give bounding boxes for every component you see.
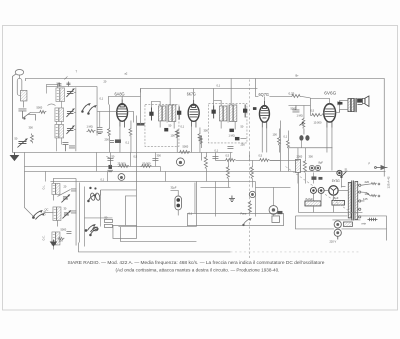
phono motor connector <box>334 221 341 240</box>
resistor tone <box>248 200 251 213</box>
svg-text:300: 300 <box>58 238 63 242</box>
circle component left mid <box>118 174 125 181</box>
electrolytic circles right <box>309 165 320 170</box>
IFT1 windings <box>158 104 175 122</box>
svg-text:Fono: Fono <box>240 211 246 215</box>
svg-text:O.L.: O.L. <box>42 185 45 190</box>
svg-text:OC: OC <box>44 207 48 211</box>
svg-text:0,5: 0,5 <box>225 153 229 157</box>
svg-text:20: 20 <box>103 79 106 83</box>
wire right mid bus <box>288 105 332 183</box>
volume pot resistor a <box>224 158 235 161</box>
dark box under 6A8G <box>115 139 121 143</box>
svg-text:a2: a2 <box>124 71 127 75</box>
svg-text:10.000: 10.000 <box>313 120 321 124</box>
center mid extra wires <box>24 152 298 226</box>
svg-text:250: 250 <box>240 142 245 146</box>
resistor under 6K7G b <box>198 132 201 141</box>
svg-text:5000: 5000 <box>182 144 188 148</box>
variable cap gang 3 <box>66 125 74 134</box>
wire osc area <box>24 171 79 249</box>
svg-text:50: 50 <box>111 154 114 158</box>
band switch arrows <box>33 210 45 219</box>
wire box link <box>100 115 136 226</box>
svg-text:32µF: 32µF <box>170 185 176 189</box>
svg-text:30: 30 <box>63 206 66 210</box>
svg-text:8µF: 8µF <box>318 160 323 164</box>
wire 6A8G grid <box>97 111 117 127</box>
wire IFT2 <box>214 78 236 129</box>
svg-text:0,5: 0,5 <box>258 153 262 157</box>
svg-text:SIARE RADIO. — Mod. 422 A. — M: SIARE RADIO. — Mod. 422 A. — Media frequ… <box>67 260 325 265</box>
double diode cap <box>175 196 182 210</box>
svg-text:100: 100 <box>272 132 277 136</box>
svg-text:300: 300 <box>28 125 33 129</box>
cap block left mid <box>106 156 113 171</box>
svg-text:125: 125 <box>363 197 368 201</box>
wire double diode <box>170 181 196 226</box>
cap 6Q7G plate line <box>288 104 310 106</box>
ground osc <box>50 237 64 246</box>
svg-text:6K7G: 6K7G <box>187 91 197 96</box>
electrolytic dots mid <box>299 135 309 141</box>
coil labels <box>42 185 46 241</box>
wire long mid bus 171 <box>24 170 385 172</box>
resistor mid column b <box>277 136 280 145</box>
tone box part a <box>243 218 252 225</box>
variable cap gang 2 <box>66 108 74 117</box>
small resistors above box <box>104 219 112 227</box>
resistor IFT1 bottom <box>175 129 178 138</box>
resistor R antenna <box>30 133 33 143</box>
wire bottom 250 <box>78 242 230 252</box>
ground main left <box>10 152 18 160</box>
svg-text:50: 50 <box>240 124 243 128</box>
phono input right <box>375 165 388 169</box>
osc coil B <box>53 207 61 221</box>
wire top B+ bus <box>25 78 384 176</box>
svg-text:25.000: 25.000 <box>117 161 125 165</box>
trimmer antenna <box>17 138 27 147</box>
svg-text:8+8µF: 8+8µF <box>305 197 313 201</box>
wire 6K7G top <box>193 88 195 100</box>
transformer taps <box>358 184 361 218</box>
svg-text:50: 50 <box>168 123 171 127</box>
speck labels top <box>75 69 299 87</box>
tuning coil bank <box>55 88 65 138</box>
wire second vertical <box>194 182 196 213</box>
svg-text:6Q7G: 6Q7G <box>258 92 269 97</box>
svg-text:300: 300 <box>203 128 208 132</box>
svg-text:0,25: 0,25 <box>288 91 294 95</box>
IF transformer 2 box <box>208 103 247 143</box>
grid cap 6Q7G <box>253 107 257 110</box>
choke filter <box>295 159 300 172</box>
svg-text:100: 100 <box>170 133 175 137</box>
ground mid <box>229 195 235 201</box>
svg-text:5000: 5000 <box>290 106 296 110</box>
lamp top <box>337 170 342 175</box>
tone box part b <box>272 216 280 223</box>
caps pair bottom left <box>62 142 74 151</box>
tube 6A8G <box>117 99 128 127</box>
circle component mid <box>176 158 184 166</box>
wire ground bus <box>12 151 232 153</box>
svg-text:220 V: 220 V <box>329 239 336 243</box>
speaker <box>357 96 369 107</box>
svg-text:1 MΩ: 1 MΩ <box>296 113 302 117</box>
svg-text:50.000: 50.000 <box>142 161 150 165</box>
svg-text:300: 300 <box>156 153 161 157</box>
resistor 3M plate <box>290 94 301 97</box>
power transformer <box>348 180 358 220</box>
osc trimmer a <box>61 194 69 202</box>
resistor under 6A8G b <box>129 127 132 136</box>
wire avc <box>201 135 246 148</box>
rectifier 5Y3G <box>329 186 338 195</box>
svg-text:50: 50 <box>104 215 107 219</box>
svg-text:O.C.: O.C. <box>42 235 45 240</box>
IFT2 trimmers <box>212 104 247 118</box>
vertical resistor det b <box>226 165 229 178</box>
IFT2 windings <box>219 104 236 122</box>
tube 6K7G <box>188 100 199 128</box>
switch mains top <box>341 171 347 177</box>
cap IFT1 bottom <box>164 128 168 132</box>
cap 6A8G cathode <box>110 140 114 142</box>
wire second top bus <box>140 88 257 92</box>
resistor on bus 152 <box>178 150 190 153</box>
wire bottom bus 226 <box>118 225 196 227</box>
switch wafer osc ovals <box>90 187 101 201</box>
svg-text:220: 220 <box>364 180 369 184</box>
wire pots <box>201 120 280 171</box>
svg-text:5000: 5000 <box>36 105 42 109</box>
circle jack small <box>249 191 255 197</box>
svg-text:200: 200 <box>104 137 109 141</box>
wire OT <box>339 100 348 112</box>
wire 6Q7G <box>253 78 291 152</box>
svg-text:0,1: 0,1 <box>283 134 287 138</box>
resistor filter <box>303 159 306 172</box>
svg-text:S1: S1 <box>344 167 348 171</box>
osc trimmer b <box>62 210 70 218</box>
capacitor antenna <box>18 109 26 119</box>
wire psu <box>298 170 362 220</box>
resistor left arm <box>38 110 46 113</box>
electrolytic block right <box>332 196 345 205</box>
wire bus 181 <box>50 180 255 182</box>
wire det resistors <box>200 152 290 216</box>
wire 6A8G bottom <box>109 104 131 152</box>
antenna <box>12 69 23 152</box>
svg-text:1 MΩ: 1 MΩ <box>228 133 234 137</box>
svg-text:50: 50 <box>14 136 17 140</box>
node switch antenna <box>22 112 35 120</box>
switch wafer RF <box>82 103 97 114</box>
wire coil links <box>46 84 61 151</box>
variable cap gang 1 <box>66 88 74 97</box>
svg-text:2000: 2000 <box>296 154 302 158</box>
fuse block hatched <box>343 222 352 227</box>
resistor mid column a <box>199 135 202 144</box>
IFT1 trimmers <box>150 106 181 120</box>
wire 6K7G bottom <box>191 126 200 152</box>
svg-text:0,1: 0,1 <box>188 211 192 215</box>
svg-text:6V6G: 6V6G <box>324 90 337 95</box>
caps osc area <box>66 189 76 234</box>
wire 6V6G <box>310 98 339 171</box>
svg-text:125 A-42: 125 A-42 <box>386 176 390 188</box>
cap 6V6G plate <box>337 101 342 105</box>
wire motor <box>120 216 386 252</box>
dark knob tone box <box>277 211 282 214</box>
cap bar under osc link <box>137 123 145 126</box>
output transformer <box>348 98 356 112</box>
svg-text:0,1: 0,1 <box>100 177 104 181</box>
left mid small parts: resistor under bus <box>118 158 225 167</box>
svg-text:300: 300 <box>308 154 313 158</box>
resistor 6V6G grid <box>310 113 321 116</box>
resistor 1M <box>86 129 95 132</box>
tone box <box>187 213 283 225</box>
wire mid bus 166 <box>24 165 160 167</box>
resistor under 6K7G a <box>176 129 179 138</box>
svg-text:0,5: 0,5 <box>310 108 314 112</box>
svg-text:0,1: 0,1 <box>125 140 129 144</box>
vertical resistor det a <box>204 155 207 168</box>
svg-text:T: T <box>75 69 77 73</box>
coil label streaks <box>53 90 59 243</box>
circle phono jack <box>269 206 278 215</box>
IF transformer 1 box <box>145 104 179 146</box>
empty box bottom left <box>113 225 137 238</box>
vertical resistor det c <box>250 165 253 178</box>
tube 6Q7G <box>259 101 269 129</box>
tube 6V6G <box>324 104 336 128</box>
cap IFT2 diode a <box>229 129 234 132</box>
svg-text:0,1: 0,1 <box>180 124 184 128</box>
wire bus 190 <box>100 189 136 191</box>
svg-text:160: 160 <box>364 192 369 196</box>
svg-text:1 MΩ: 1 MΩ <box>86 124 92 128</box>
cap grid ground <box>96 127 103 133</box>
caps mid band <box>107 146 233 160</box>
svg-text:(Ad onda cortissima, attacca m: (Ad onda cortissima, attacca mantes a de… <box>115 267 279 272</box>
pilot lamps <box>310 187 324 193</box>
svg-text:0,5: 0,5 <box>133 154 137 158</box>
diagonal dashed link <box>285 166 352 213</box>
osc coil C <box>52 232 60 245</box>
pot volume with arrow <box>299 117 304 134</box>
wire wafer feed <box>84 186 112 246</box>
wire 6A8G top cap <box>108 96 122 104</box>
svg-text:0,1: 0,1 <box>216 83 220 87</box>
svg-text:0,1: 0,1 <box>214 148 218 152</box>
cap 5000 <box>292 105 299 112</box>
svg-text:20: 20 <box>63 184 66 188</box>
switch wafer osc lower cluster <box>85 224 98 232</box>
svg-text:0,1: 0,1 <box>99 96 103 100</box>
dark parts above lamps <box>311 176 322 179</box>
trimmers on box top <box>57 76 70 86</box>
resistor under 6A8G a <box>107 127 110 136</box>
fuse bottom right <box>367 218 377 221</box>
left bottom switch wafer 2 <box>88 194 99 235</box>
cap IFT2 diode b <box>235 137 240 140</box>
svg-text:5Y3G: 5Y3G <box>332 178 340 183</box>
svg-text:6A8G: 6A8G <box>114 91 125 96</box>
value labels <box>14 81 370 243</box>
mains taps right <box>361 183 380 201</box>
wire IFT1 <box>122 88 174 128</box>
osc coil A <box>52 183 60 194</box>
wire mid columns <box>279 128 288 171</box>
electrolytic block left <box>305 197 321 206</box>
svg-text:B+: B+ <box>295 73 299 77</box>
antenna coil form <box>17 75 27 108</box>
dashed shaft link vertical <box>248 79 250 258</box>
volume pot resistor b <box>258 158 269 161</box>
svg-text:rete: rete <box>361 221 366 225</box>
svg-text:F: F <box>368 161 370 165</box>
svg-text:5000: 5000 <box>60 227 66 231</box>
resistor mid column c <box>286 139 289 148</box>
wire gang bus <box>46 86 97 151</box>
